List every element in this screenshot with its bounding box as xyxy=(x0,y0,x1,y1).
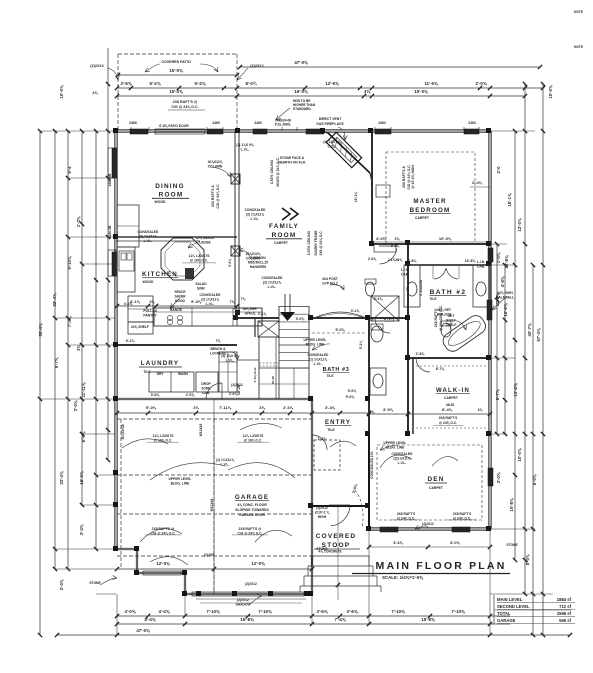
svg-text:CONCEALED: CONCEALED xyxy=(138,230,159,234)
svg-text:16'-1⅝: 16'-1⅝ xyxy=(507,193,512,206)
svg-text:2X8 RAFT'S &: 2X8 RAFT'S & xyxy=(402,165,406,187)
svg-text:@ 24⅝ O.C.: @ 24⅝ O.C. xyxy=(439,421,457,425)
svg-text:3'-1⅝: 3'-1⅝ xyxy=(258,312,268,316)
svg-text:STONE: STONE xyxy=(89,581,101,585)
svg-text:3⅝: 3⅝ xyxy=(364,89,370,94)
svg-text:BATH #2: BATH #2 xyxy=(430,289,467,296)
svg-text:RANGE: RANGE xyxy=(170,308,183,312)
svg-text:(2) 1⅞X 9⅝: (2) 1⅞X 9⅝ xyxy=(323,140,340,144)
svg-text:5'-2⅝: 5'-2⅝ xyxy=(150,81,161,86)
svg-text:9'-1⅝: 9'-1⅝ xyxy=(126,339,136,343)
svg-text:(2) 1⅞X11⅞: (2) 1⅞X11⅞ xyxy=(201,298,219,302)
svg-text:5'-2⅝: 5'-2⅝ xyxy=(195,81,206,86)
svg-text:SHADOW: SHADOW xyxy=(235,603,251,607)
svg-text:COVERED: COVERED xyxy=(316,533,357,540)
svg-text:47'-0⅝: 47'-0⅝ xyxy=(136,628,150,633)
svg-text:3'-4⅝: 3'-4⅝ xyxy=(79,524,84,535)
svg-text:5'-0⅝: 5'-0⅝ xyxy=(335,328,345,332)
svg-text:GARAGE: GARAGE xyxy=(235,494,269,501)
svg-text:(2) 1⅞X11⅞: (2) 1⅞X11⅞ xyxy=(263,281,281,285)
svg-text:UPPER LEVEL: UPPER LEVEL xyxy=(384,441,407,445)
svg-text:7'-3⅝: 7'-3⅝ xyxy=(67,316,72,327)
svg-text:UPPER LEVEL: UPPER LEVEL xyxy=(304,338,327,342)
svg-text:40'-7⅝: 40'-7⅝ xyxy=(527,323,532,336)
svg-text:STONE FACE &: STONE FACE & xyxy=(280,156,305,160)
svg-text:1'-2⅝: 1'-2⅝ xyxy=(76,216,81,227)
svg-text:STANDARD.: STANDARD. xyxy=(293,107,312,111)
svg-text:8'-0⅝: 8'-0⅝ xyxy=(450,541,460,545)
svg-text:3'-0⅝: 3'-0⅝ xyxy=(73,400,78,411)
svg-text:(1) 1⅞X11⅞: (1) 1⅞X11⅞ xyxy=(309,358,327,362)
svg-text:CONCEALED: CONCEALED xyxy=(200,293,221,297)
svg-text:CARPET: CARPET xyxy=(415,216,430,220)
svg-text:15'-8⅝: 15'-8⅝ xyxy=(421,617,435,622)
svg-text:2460: 2460 xyxy=(212,121,220,125)
svg-text:10'-8⅝: 10'-8⅝ xyxy=(504,255,509,268)
svg-text:565 sf: 565 sf xyxy=(559,618,571,623)
svg-text:COVERED PATIO: COVERED PATIO xyxy=(161,60,190,64)
svg-text:7'-10⅝: 7'-10⅝ xyxy=(451,609,465,614)
svg-text:(2)1⅞X11⅞: (2)1⅞X11⅞ xyxy=(393,457,410,461)
svg-text:7'-4⅝: 7'-4⅝ xyxy=(335,617,346,622)
svg-text:LAUNDRY: LAUNDRY xyxy=(141,360,179,367)
svg-text:6'-1⅝: 6'-1⅝ xyxy=(384,316,395,321)
svg-text:2'-6⅝: 2'-6⅝ xyxy=(391,244,401,248)
svg-text:11'-5⅝: 11'-5⅝ xyxy=(424,81,437,86)
svg-text:(2)2X12: (2)2X12 xyxy=(250,64,264,68)
svg-text:22'-4⅝: 22'-4⅝ xyxy=(59,471,64,484)
svg-text:16'-0⅝: 16'-0⅝ xyxy=(294,89,308,94)
svg-text:16'-0⅝: 16'-0⅝ xyxy=(79,471,84,484)
svg-text:BLDG. LINE: BLDG. LINE xyxy=(386,446,405,450)
svg-text:CARPET: CARPET xyxy=(444,396,459,400)
svg-text:8'-0⅝: 8'-0⅝ xyxy=(525,554,530,565)
svg-text:ROOM: ROOM xyxy=(272,232,297,239)
svg-text:C/G @ 24⅝ O.C.: C/G @ 24⅝ O.C. xyxy=(171,105,198,109)
svg-text:W12X48: W12X48 xyxy=(210,499,214,512)
svg-text:12'-0⅝: 12'-0⅝ xyxy=(156,561,170,566)
svg-text:C/G @ 24⅝ O.C.: C/G @ 24⅝ O.C. xyxy=(216,183,220,208)
svg-text:42⅝ HIGH: 42⅝ HIGH xyxy=(497,291,513,295)
svg-text:36-26: 36-26 xyxy=(446,403,454,407)
svg-text:TOTAL: TOTAL xyxy=(497,611,511,616)
svg-text:GAS FIREPLACE: GAS FIREPLACE xyxy=(316,122,344,126)
svg-text:L.V.L.: L.V.L. xyxy=(314,362,323,366)
svg-text:13'-2⅝: 13'-2⅝ xyxy=(513,383,518,396)
svg-text:DIRECT VENT: DIRECT VENT xyxy=(319,117,343,121)
svg-text:2440-3B: 2440-3B xyxy=(108,225,112,238)
svg-text:2X8 RAFT'S @: 2X8 RAFT'S @ xyxy=(152,527,175,531)
svg-text:DRY: DRY xyxy=(157,372,165,376)
svg-text:3'-0⅝: 3'-0⅝ xyxy=(383,407,394,412)
svg-text:CONCEALED LVL: CONCEALED LVL xyxy=(370,451,374,479)
svg-text:12'-0⅝: 12'-0⅝ xyxy=(517,218,522,231)
svg-text:(1) 1⅞X11⅞: (1) 1⅞X11⅞ xyxy=(216,458,234,462)
svg-text:8'-4⅝: 8'-4⅝ xyxy=(442,407,453,412)
svg-text:2X8 RAFT'S: 2X8 RAFT'S xyxy=(453,512,472,516)
svg-text:3'-1\u215d: 3'-1\u215d xyxy=(419,280,423,296)
svg-text:3'-4⅝: 3'-4⅝ xyxy=(228,259,232,268)
svg-text:4⅝ CONC. FLOOR: 4⅝ CONC. FLOOR xyxy=(237,503,267,507)
svg-text:4'-8⅝: 4'-8⅝ xyxy=(500,276,505,287)
svg-text:L.I.N.: L.I.N. xyxy=(477,260,485,264)
svg-text:CONCEALED: CONCEALED xyxy=(392,452,413,456)
svg-text:7'-10⅝: 7'-10⅝ xyxy=(206,609,220,614)
svg-text:11'-11⅝: 11'-11⅝ xyxy=(81,382,86,397)
svg-text:HEARTH ON FLR.: HEARTH ON FLR. xyxy=(278,161,306,165)
svg-text:L.V.L.: L.V.L. xyxy=(241,148,250,152)
svg-text:5'-7⅝: 5'-7⅝ xyxy=(54,357,59,368)
svg-text:4'-9⅝ CLG: 4'-9⅝ CLG xyxy=(253,367,257,383)
svg-text:@ 16⅝ O.C.: @ 16⅝ O.C. xyxy=(190,259,208,263)
svg-text:HIGH: HIGH xyxy=(318,515,327,519)
svg-text:DUMMY FRAME: DUMMY FRAME xyxy=(314,230,318,256)
svg-text:HANGERS: HANGERS xyxy=(250,265,267,269)
svg-text:CATH. CEILING: CATH. CEILING xyxy=(270,160,274,185)
svg-text:(2)2X8: (2)2X8 xyxy=(204,553,214,557)
svg-text:4'-0⅝: 4'-0⅝ xyxy=(125,609,136,614)
svg-text:L.I.N.: L.I.N. xyxy=(401,268,409,272)
svg-text:1'-0⅝: 1'-0⅝ xyxy=(496,252,501,263)
svg-text:2'-8⅝: 2'-8⅝ xyxy=(416,352,426,356)
svg-text:CARPET: CARPET xyxy=(429,486,444,490)
svg-text:2'-6⅝: 2'-6⅝ xyxy=(368,257,377,261)
svg-text:24⅝ SHELF: 24⅝ SHELF xyxy=(131,325,149,329)
svg-text:GARAGE DOOR: GARAGE DOOR xyxy=(239,513,266,517)
svg-text:L.V.L.: L.V.L. xyxy=(144,239,153,243)
svg-text:10'-0⅝: 10'-0⅝ xyxy=(503,303,508,316)
svg-text:HALFWALL: HALFWALL xyxy=(496,296,514,300)
svg-text:6'-7⅝: 6'-7⅝ xyxy=(436,367,446,371)
svg-text:CONCEALED: CONCEALED xyxy=(245,208,266,212)
svg-text:CAB.: CAB. xyxy=(477,265,485,269)
svg-text:STONE: STONE xyxy=(316,547,328,551)
svg-text:SPACE: SPACE xyxy=(174,290,186,294)
svg-text:SINK: SINK xyxy=(197,287,205,291)
svg-text:BLDG. LINE: BLDG. LINE xyxy=(171,482,190,486)
svg-text:2'-0⅝: 2'-0⅝ xyxy=(472,180,483,185)
svg-text:15'-0⅝: 15'-0⅝ xyxy=(414,89,428,94)
svg-text:(2)2X12: (2)2X12 xyxy=(237,598,249,602)
svg-text:(3) 1⅞X11⅞: (3) 1⅞X11⅞ xyxy=(139,235,157,239)
svg-text:12'-5⅝: 12'-5⅝ xyxy=(325,81,339,86)
svg-text:36⅝ REF.: 36⅝ REF. xyxy=(243,307,258,311)
svg-text:2-1⅝X6⅝: 2-1⅝X6⅝ xyxy=(388,258,403,262)
svg-text:12⅝ SNACK: 12⅝ SNACK xyxy=(195,236,215,240)
svg-text:8'-4⅝: 8'-4⅝ xyxy=(145,617,156,622)
svg-text:DINING: DINING xyxy=(155,183,185,190)
svg-text:2'-6⅝: 2'-6⅝ xyxy=(283,405,294,410)
svg-text:10'-0⅝: 10'-0⅝ xyxy=(59,85,64,98)
svg-text:11⅞ I-JOISTS: 11⅞ I-JOISTS xyxy=(189,254,211,258)
svg-text:5'-0⅝: 5'-0⅝ xyxy=(348,389,358,393)
svg-text:(2)2X12: (2)2X12 xyxy=(90,64,104,68)
svg-text:2460-3B: 2460-3B xyxy=(108,173,112,186)
svg-text:P.SL./RAIL: P.SL./RAIL xyxy=(275,123,291,127)
svg-text:DROP: DROP xyxy=(201,382,211,386)
svg-text:SLOPING TOWARDS: SLOPING TOWARDS xyxy=(235,508,269,512)
svg-text:4'-1⅝: 4'-1⅝ xyxy=(124,302,134,306)
svg-text:712 sf: 712 sf xyxy=(559,604,571,609)
svg-text:L.V.L.: L.V.L. xyxy=(226,359,235,363)
svg-text:2'-0⅝: 2'-0⅝ xyxy=(476,81,487,86)
svg-text:MAIN LEVEL: MAIN LEVEL xyxy=(497,597,523,602)
svg-text:3⅝: 3⅝ xyxy=(259,405,265,410)
svg-text:SECOND LEVEL: SECOND LEVEL xyxy=(497,604,530,609)
svg-text:2460: 2460 xyxy=(254,121,262,125)
svg-text:SHELF: SHELF xyxy=(446,323,457,327)
svg-text:4'-4⅝: 4'-4⅝ xyxy=(159,609,170,614)
svg-text:@10'-1 ⅝: @10'-1 ⅝ xyxy=(315,511,330,515)
svg-text:WASH: WASH xyxy=(178,372,189,376)
svg-text:15'-0⅝: 15'-0⅝ xyxy=(169,68,183,73)
svg-text:3⅝: 3⅝ xyxy=(193,405,199,410)
svg-text:SPACE: SPACE xyxy=(244,312,256,316)
svg-text:ENTRY: ENTRY xyxy=(325,420,351,426)
svg-text:10'-0⅝: 10'-0⅝ xyxy=(517,448,522,461)
svg-text:8'-7⅝: 8'-7⅝ xyxy=(495,389,500,400)
svg-text:2X8 RAFT'S: 2X8 RAFT'S xyxy=(439,416,458,420)
svg-text:CATH. CEILING: CATH. CEILING xyxy=(307,231,311,256)
svg-text:STONE: STONE xyxy=(506,543,518,547)
svg-text:2X6 RAFT'S &: 2X6 RAFT'S & xyxy=(211,184,215,206)
svg-text:TILE: TILE xyxy=(429,297,437,301)
svg-text:BATH #3: BATH #3 xyxy=(323,367,350,373)
svg-text:PULL-18: PULL-18 xyxy=(143,309,157,313)
svg-text:9'-0⅝: 9'-0⅝ xyxy=(146,405,157,410)
svg-text:ZONE: ZONE xyxy=(201,387,211,391)
svg-text:CAB.: CAB. xyxy=(202,391,210,395)
svg-text:WOOD: WOOD xyxy=(155,200,166,204)
svg-text:MAIN FLOOR PLAN: MAIN FLOOR PLAN xyxy=(376,560,507,572)
svg-text:6'-1⅝: 6'-1⅝ xyxy=(374,297,384,301)
svg-text:5'-6⅝: 5'-6⅝ xyxy=(151,393,161,397)
svg-text:BEDROOM: BEDROOM xyxy=(410,207,451,214)
svg-text:WOOD: WOOD xyxy=(143,280,154,284)
svg-text:33'-4⅝: 33'-4⅝ xyxy=(52,293,57,306)
svg-text:SCALE: 1/4⅝=1'-0⅝: SCALE: 1/4⅝=1'-0⅝ xyxy=(382,575,423,580)
svg-text:CAB.: CAB. xyxy=(401,273,409,277)
svg-text:2460: 2460 xyxy=(129,121,137,125)
svg-text:NOTE: NOTE xyxy=(574,45,583,49)
svg-text:12'-0⅝: 12'-0⅝ xyxy=(251,561,265,566)
svg-text:PANTRY: PANTRY xyxy=(143,314,157,318)
svg-text:(2) 1⅞X 9⅝: (2) 1⅞X 9⅝ xyxy=(236,143,253,147)
svg-text:10⅝X6⅝B: 10⅝X6⅝B xyxy=(121,424,125,440)
svg-text:6'-8⅝ PATIO DOOR: 6'-8⅝ PATIO DOOR xyxy=(159,124,189,128)
svg-text:2463: 2463 xyxy=(378,121,386,125)
svg-text:7'-10⅝: 7'-10⅝ xyxy=(391,609,405,614)
svg-text:2'-6⅝: 2'-6⅝ xyxy=(121,81,132,86)
svg-text:WALK-IN: WALK-IN xyxy=(436,388,470,394)
svg-text:LEDGE: LEDGE xyxy=(199,241,211,245)
svg-text:15'-8⅝: 15'-8⅝ xyxy=(240,617,254,622)
svg-text:L.V.L.: L.V.L. xyxy=(206,302,215,306)
svg-text:3'-1⅝: 3'-1⅝ xyxy=(351,309,361,313)
svg-text:57'-4⅝: 57'-4⅝ xyxy=(536,328,541,341)
svg-text:NOTE: NOTE xyxy=(574,10,583,14)
svg-text:2'-6⅝: 2'-6⅝ xyxy=(408,259,418,263)
svg-text:11⅞ I-JOISTS: 11⅞ I-JOISTS xyxy=(153,434,175,438)
svg-text:ROOM: ROOM xyxy=(159,192,184,199)
svg-text:4X4 POST: 4X4 POST xyxy=(322,277,338,281)
svg-text:8'-0¾: 8'-0¾ xyxy=(246,81,257,86)
svg-text:TILE: TILE xyxy=(327,374,334,378)
svg-text:L.V.L.: L.V.L. xyxy=(328,145,337,149)
svg-text:(2)2X12: (2)2X12 xyxy=(316,506,328,510)
svg-text:6'-0⅝: 6'-0⅝ xyxy=(81,431,86,442)
svg-text:2X8 RAFT'S @: 2X8 RAFT'S @ xyxy=(173,100,198,104)
svg-text:5'-0⅝: 5'-0⅝ xyxy=(296,317,306,321)
svg-text:GARAGE: GARAGE xyxy=(497,618,516,623)
svg-text:2X6 @ 24⅝ O.C.: 2X6 @ 24⅝ O.C. xyxy=(319,230,323,255)
svg-text:2X10'S @ 24⅝ O.C.: 2X10'S @ 24⅝ O.C. xyxy=(276,157,280,187)
svg-text:@ 13'-0⅝ HIGH: @ 13'-0⅝ HIGH xyxy=(411,165,415,189)
svg-text:5'-1⅝: 5'-1⅝ xyxy=(359,341,363,350)
svg-text:7'-10⅝: 7'-10⅝ xyxy=(258,609,272,614)
svg-text:2X8 RAFT'S: 2X8 RAFT'S xyxy=(397,512,416,516)
svg-text:@ 24\u215d O.C.: @ 24\u215d O.C. xyxy=(439,305,443,331)
svg-text:3'-0⅝: 3'-0⅝ xyxy=(496,472,501,483)
svg-text:CONCEALED: CONCEALED xyxy=(262,276,283,280)
svg-text:10⅝X12⅝: 10⅝X12⅝ xyxy=(207,160,222,164)
svg-text:3'-6⅝: 3'-6⅝ xyxy=(347,609,358,614)
svg-text:2596 sf: 2596 sf xyxy=(557,611,572,616)
svg-text:5'-0⅝: 5'-0⅝ xyxy=(346,395,356,399)
svg-text:2'-0⅝: 2'-0⅝ xyxy=(59,579,64,590)
svg-text:TILE: TILE xyxy=(327,428,335,432)
svg-text:UPPER LEVEL: UPPER LEVEL xyxy=(169,477,192,481)
svg-text:1B'-2B: 1B'-2B xyxy=(237,384,241,395)
svg-text:W12X45: W12X45 xyxy=(199,424,203,437)
svg-text:2X8 RAFT'S: 2X8 RAFT'S xyxy=(434,308,438,327)
svg-text:TILE: TILE xyxy=(143,370,151,374)
svg-text:9'-10⅝: 9'-10⅝ xyxy=(67,256,72,269)
svg-text:4'-0⅝: 4'-0⅝ xyxy=(376,236,387,241)
svg-text:1'-6⅝: 1'-6⅝ xyxy=(318,437,328,441)
svg-text:SAVER: SAVER xyxy=(174,295,186,299)
svg-text:IK-28: IK-28 xyxy=(271,376,275,384)
svg-text:M65.56/11.25: M65.56/11.25 xyxy=(248,261,268,265)
svg-text:11⅞ I-JOISTS: 11⅞ I-JOISTS xyxy=(243,434,265,438)
svg-text:10'-9⅝: 10'-9⅝ xyxy=(439,236,452,241)
svg-text:1884 sf: 1884 sf xyxy=(557,597,572,602)
svg-text:2X8 RAFT'S @: 2X8 RAFT'S @ xyxy=(239,527,262,531)
svg-text:L.V.L.: L.V.L. xyxy=(398,461,407,465)
svg-text:BENCH &: BENCH & xyxy=(210,347,226,351)
svg-text:CONCEALED: CONCEALED xyxy=(308,353,329,357)
svg-text:3'-6⅝: 3'-6⅝ xyxy=(317,609,328,614)
svg-text:47'-0⅝: 47'-0⅝ xyxy=(294,60,308,65)
svg-text:2463: 2463 xyxy=(468,121,476,125)
svg-text:FAMILY: FAMILY xyxy=(269,223,299,230)
svg-text:10'-0⅝: 10'-0⅝ xyxy=(548,85,553,98)
svg-text:(2)2X12: (2)2X12 xyxy=(245,582,257,586)
svg-text:L.V.L.: L.V.L. xyxy=(221,463,230,467)
svg-text:2'-0: 2'-0 xyxy=(496,166,501,174)
svg-text:KITCHEN: KITCHEN xyxy=(142,271,178,278)
svg-text:3'-6⅝: 3'-6⅝ xyxy=(393,541,403,545)
svg-text:CARPET: CARPET xyxy=(274,241,289,245)
svg-text:L.V.L.: L.V.L. xyxy=(268,285,277,289)
svg-text:(2) 1⅞X11⅞: (2) 1⅞X11⅞ xyxy=(246,213,264,217)
svg-text:COLUMN: COLUMN xyxy=(208,165,223,169)
svg-text:2'-0⅝: 2'-0⅝ xyxy=(186,393,196,397)
svg-text:BLDG. LINE: BLDG. LINE xyxy=(306,343,325,347)
svg-text:MASTER: MASTER xyxy=(413,198,446,205)
svg-text:10'-8⅝: 10'-8⅝ xyxy=(509,498,514,511)
svg-text:4⅝: 4⅝ xyxy=(92,91,98,95)
svg-text:16'-1⅝: 16'-1⅝ xyxy=(354,192,358,202)
svg-text:16'-8⅝: 16'-8⅝ xyxy=(465,259,477,263)
svg-text:DEN: DEN xyxy=(427,476,444,483)
svg-text:L.V.L.: L.V.L. xyxy=(251,217,260,221)
svg-text:15'-0⅝: 15'-0⅝ xyxy=(169,89,183,94)
svg-text:6'-4: 6'-4 xyxy=(67,166,72,174)
svg-text:3'-3⅝: 3'-3⅝ xyxy=(325,405,336,410)
svg-text:SALAD: SALAD xyxy=(195,282,207,286)
svg-text:55'-4⅝: 55'-4⅝ xyxy=(38,323,43,336)
svg-text:(2)2X12: (2)2X12 xyxy=(422,522,434,526)
svg-text:7'-11⅝: 7'-11⅝ xyxy=(219,405,232,410)
svg-text:3⅝: 3⅝ xyxy=(76,345,81,351)
svg-text:SIMPSON: SIMPSON xyxy=(250,256,266,260)
